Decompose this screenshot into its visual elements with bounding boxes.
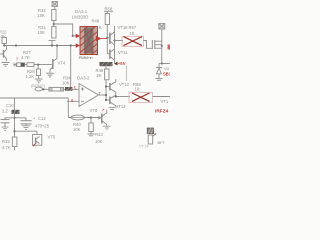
wire red output arrow from PWM box: [101, 38, 107, 40]
svg-text:C12: C12: [38, 116, 46, 121]
power terminal top (12V pin): [52, 2, 58, 10]
svg-text:DA3-2: DA3-2: [77, 76, 90, 81]
capacitor C12 electrolytic: [21, 118, 32, 126]
svg-text:10K: 10K: [73, 127, 81, 132]
transistor VT18 (top driver NPN): [107, 26, 114, 62]
wire feedback network: [0, 97, 68, 99]
ground (R28): [35, 79, 43, 83]
ground (zener): [156, 78, 163, 80]
wire op-amp pin5 vertical from main rail: [70, 46, 72, 88]
node junction base/R28: [37, 64, 39, 66]
capacitor C10 body: [1, 118, 10, 127]
node junction R43: [90, 117, 92, 119]
MOSFET VT10 (top right): [152, 30, 162, 64]
resistor R32: [38, 8, 57, 27]
resistor R12 (left edge, label clipped): [0, 30, 7, 46]
svg-text:R15: R15: [2, 139, 10, 144]
transistor VT5 (in box): [33, 135, 42, 146]
node junction on main rail at R12: [3, 44, 5, 46]
node divider junction: [53, 23, 55, 25]
svg-text:VT13: VT13: [116, 104, 127, 109]
svg-text:R48: R48: [92, 18, 100, 23]
svg-text:C10: C10: [6, 103, 14, 108]
component dark box on pin5 wire: [65, 87, 73, 91]
svg-text:1.2K: 1.2K: [26, 74, 35, 79]
svg-text:10K: 10K: [38, 30, 46, 35]
svg-text:10: 10: [135, 86, 140, 91]
svg-text:PWM+in: PWM+in: [79, 55, 93, 60]
resistor R57 crossed out (red X): [122, 37, 144, 47]
ground (VT13): [109, 108, 116, 110]
capacitor (small element on base wire): [13, 63, 15, 67]
ground (VT1 emitter): [2, 63, 10, 67]
ground (C10): [2, 127, 9, 131]
svg-text:VT4: VT4: [58, 61, 66, 66]
svg-text:10K: 10K: [38, 13, 46, 18]
ground (C12): [22, 126, 30, 130]
ground (VT8 emitter): [103, 126, 111, 130]
svg-text:10K: 10K: [62, 80, 70, 85]
transistor VT12: [106, 79, 116, 97]
svg-text:2K: 2K: [97, 73, 102, 78]
transistor VT4: [50, 46, 66, 73]
wire faint vertical (VT12 collector rail): [126, 66, 128, 81]
svg-text:SB1: SB1: [163, 71, 170, 76]
svg-text:4.7K: 4.7K: [21, 55, 30, 60]
wire VT1 base chain y=64.6: [14, 64, 52, 66]
svg-text:10K: 10K: [0, 34, 6, 39]
resistor R40 (oval): [71, 115, 84, 120]
transistor VT1 (bottom-left BJT): [0, 46, 7, 62]
resistor R28: [26, 65, 41, 79]
wire divider tap to comparator: [54, 24, 73, 36]
transistor VT13: [106, 95, 116, 107]
ground (VT4 emitter): [46, 73, 54, 77]
resistor R15: [2, 137, 17, 150]
svg-text:1K: 1K: [97, 25, 102, 30]
svg-text:10K: 10K: [95, 139, 103, 144]
ground bar under R31: [49, 40, 56, 45]
resistor R68 crossed out (red X): [129, 93, 153, 103]
wire into box upper + red arrowhead: [73, 35, 76, 37]
transistor VT14 cluster bottom right: [139, 128, 166, 148]
op-amp DA3.2 comparator: [35, 76, 106, 107]
node +5V hatched box: [100, 62, 118, 66]
svg-text:R57: R57: [129, 25, 137, 30]
resistor R58 with terminal: [104, 7, 113, 38]
resistor R49: [96, 66, 110, 100]
svg-text:VT18: VT18: [118, 25, 129, 30]
svg-text:R58: R58: [105, 7, 113, 12]
wire cap tie: [5, 117, 26, 119]
svg-text:R43: R43: [95, 132, 103, 137]
component small box on base wire: [17, 63, 21, 67]
resistor R34 on pin5 wire: [35, 75, 71, 91]
component dark box near C10: [12, 110, 20, 114]
svg-text:+5V: +5V: [118, 61, 126, 66]
resistor R31: [38, 25, 57, 38]
component dark box on base wire: [21, 63, 25, 67]
svg-text:470+25: 470+25: [35, 124, 50, 129]
wire gate (bottom channel): [116, 96, 130, 98]
wire main horizontal rail y=45.5: [4, 45, 76, 47]
transistor VT11 (top driver PNP): [107, 38, 114, 61]
svg-text:VT1: VT1: [161, 99, 169, 104]
wire to VT5: [15, 130, 38, 132]
resistor R27: [21, 50, 34, 67]
svg-text:VD: VD: [164, 67, 170, 71]
PWM input box (red hatched, removed part): [80, 27, 98, 55]
svg-text:VT11: VT11: [118, 50, 128, 55]
svg-text:2.2: 2.2: [2, 108, 8, 113]
node junction on main rail x=16: [15, 44, 17, 46]
resistor R43: [88, 118, 104, 144]
wire bottom left rail: [14, 98, 16, 137]
node red mark right edge: [168, 45, 171, 50]
power terminal (drain supply): [159, 24, 165, 30]
svg-text:VT14: VT14: [139, 143, 149, 148]
svg-text:VT8: VT8: [90, 108, 98, 113]
wire into box lower + red arrowhead: [76, 43, 80, 48]
svg-text:VT5: VT5: [48, 135, 56, 140]
wire gate (top channel): [115, 40, 124, 42]
wire source node to right: [162, 63, 170, 65]
svg-text:VT12: VT12: [119, 82, 130, 87]
svg-text:↗: ↗: [101, 108, 105, 113]
svg-text:BFT: BFT: [158, 140, 166, 145]
svg-text:LM393D: LM393D: [72, 14, 89, 19]
svg-text:IRFZ4: IRFZ4: [155, 109, 169, 115]
diode VD (zener): [156, 64, 162, 79]
wire gate to MOSFET: [144, 41, 153, 49]
svg-text:4.7K: 4.7K: [2, 145, 11, 150]
svg-text:10: 10: [130, 31, 135, 36]
